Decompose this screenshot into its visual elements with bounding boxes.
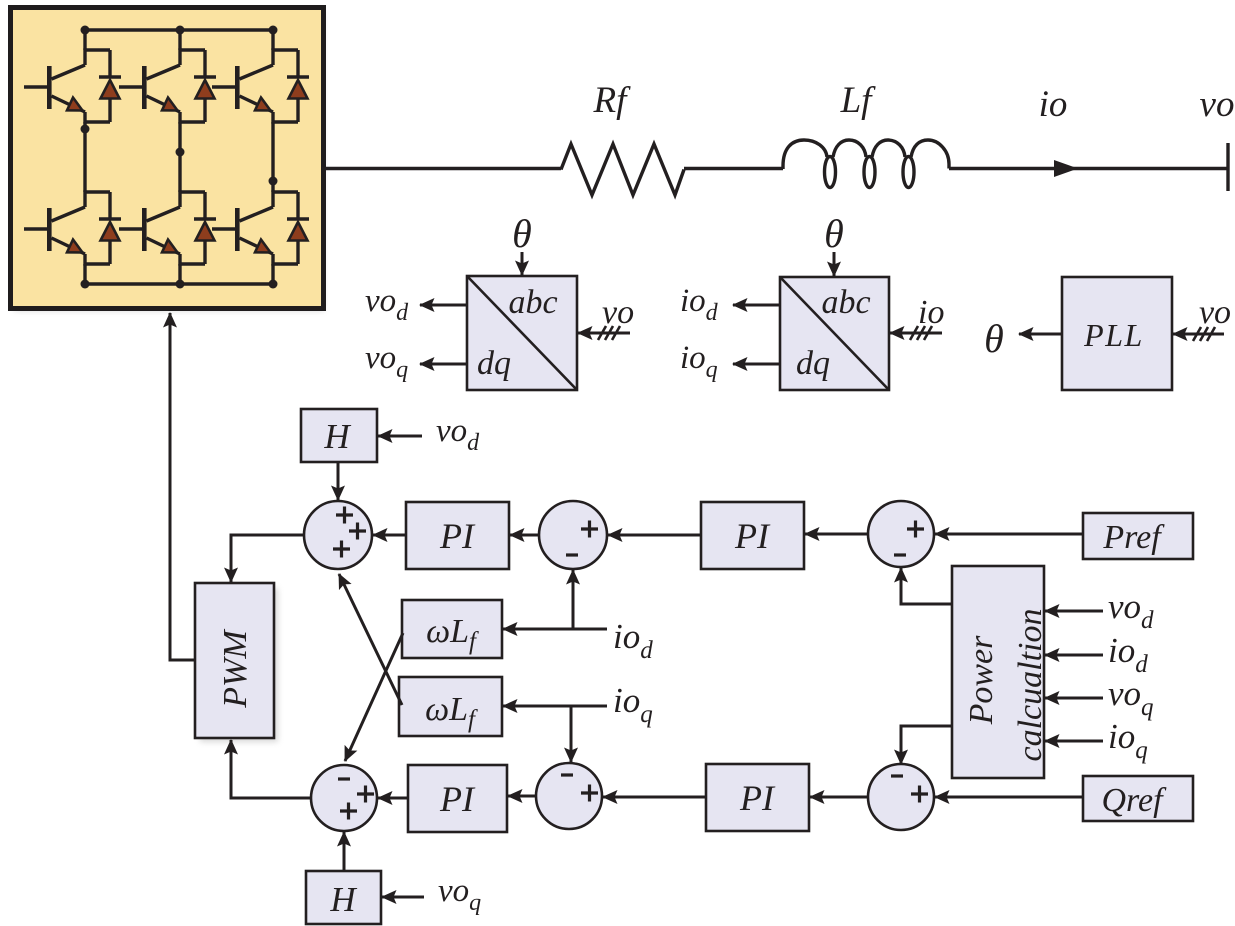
svg-text:voq: voq [365, 340, 408, 383]
svg-text:io: io [1039, 84, 1068, 125]
svg-text:calcualtion: calcualtion [1012, 609, 1049, 762]
svg-text:vo: vo [1200, 84, 1235, 125]
svg-text:Rf: Rf [593, 80, 632, 121]
svg-text:vod: vod [436, 413, 480, 456]
svg-text:θ: θ [984, 316, 1004, 361]
svg-text:abc: abc [821, 284, 870, 321]
svg-text:PI: PI [439, 516, 476, 556]
svg-text:Pref: Pref [1102, 519, 1165, 556]
svg-text:H: H [323, 417, 351, 456]
svg-text:iod: iod [613, 617, 653, 664]
svg-text:io: io [918, 294, 944, 331]
svg-text:dq: dq [477, 345, 511, 382]
svg-text:iod: iod [680, 283, 719, 326]
svg-text:ioq: ioq [613, 681, 653, 728]
svg-text:vod: vod [365, 283, 409, 326]
svg-text:Qref: Qref [1101, 782, 1167, 819]
svg-text:ioq: ioq [680, 340, 718, 383]
svg-text:PI: PI [439, 779, 476, 819]
svg-text:θ: θ [824, 211, 844, 256]
svg-text:vo: vo [1199, 294, 1231, 331]
svg-text:voq: voq [1108, 674, 1154, 721]
svg-text:voq: voq [438, 873, 481, 916]
svg-text:iod: iod [1108, 631, 1148, 678]
svg-text:ioq: ioq [1108, 717, 1148, 764]
svg-text:vod: vod [1108, 587, 1154, 634]
svg-text:PLL: PLL [1083, 317, 1144, 353]
svg-text:PWM: PWM [217, 629, 254, 709]
svg-text:dq: dq [796, 345, 830, 382]
svg-text:θ: θ [512, 211, 532, 256]
svg-text:PI: PI [734, 516, 771, 556]
svg-text:H: H [329, 880, 357, 919]
svg-text:abc: abc [508, 284, 557, 321]
svg-text:PI: PI [739, 778, 776, 818]
svg-text:Power: Power [963, 635, 1000, 726]
svg-text:Lf: Lf [840, 80, 877, 121]
svg-text:vo: vo [602, 294, 634, 331]
